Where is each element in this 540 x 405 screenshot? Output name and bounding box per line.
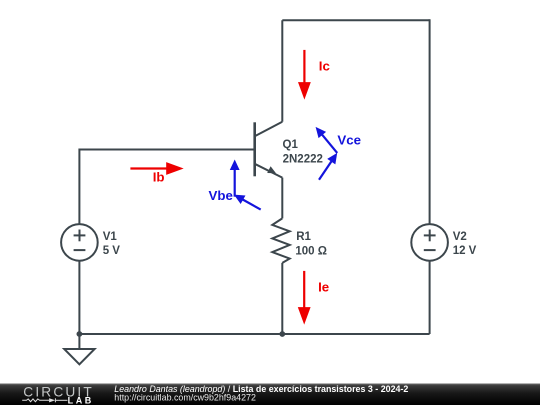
- wire: V1 minus terminal down to ground net: [78, 261, 80, 334]
- svg-text:http://circuitlab.com/cw9b2hf9: http://circuitlab.com/cw9b2hf9a4272: [114, 393, 256, 403]
- voltage source V1: [61, 224, 98, 261]
- svg-text:Vbe: Vbe: [209, 188, 233, 203]
- resistor R1: [272, 218, 289, 263]
- wire: collector vertical up: [281, 20, 283, 122]
- svg-text:2N2222: 2N2222: [283, 153, 323, 165]
- svg-text:Ie: Ie: [318, 279, 329, 294]
- wire: V1 plus terminal up to base net corner: [78, 149, 80, 225]
- svg-text:Vce: Vce: [337, 132, 361, 147]
- voltage arrow Vce: [316, 127, 361, 180]
- svg-text:100 Ω: 100 Ω: [295, 245, 327, 257]
- current arrow Ib: [130, 162, 183, 184]
- wire: emitter down to resistor R1: [281, 178, 283, 219]
- node junction ground net at R1: [279, 331, 285, 337]
- svg-text:5 V: 5 V: [103, 245, 121, 257]
- svg-text:Ib: Ib: [153, 169, 165, 184]
- svg-text:V2: V2: [453, 231, 467, 243]
- svg-text:R1: R1: [296, 231, 311, 243]
- svg-text:V1: V1: [103, 231, 118, 243]
- wire: base net horizontal: [79, 149, 254, 151]
- ground: [64, 334, 94, 364]
- transistor Q1: [255, 122, 283, 178]
- wire: right vertical into V2 plus terminal: [429, 19, 431, 224]
- current arrow Ie: [298, 271, 329, 325]
- svg-text:LAB: LAB: [68, 396, 94, 405]
- svg-text:12 V: 12 V: [453, 245, 477, 257]
- voltage arrow Vbe: [209, 160, 261, 210]
- voltage source V2: [411, 224, 448, 261]
- wire: resistor R1 down to ground net: [281, 263, 283, 334]
- svg-text:Q1: Q1: [283, 139, 299, 151]
- CircuitLab logo squiggle resistor and diode: [22, 398, 67, 402]
- current arrow Ic: [298, 50, 330, 100]
- wire: V2 minus terminal down to ground net: [429, 261, 431, 334]
- wire: bottom ground net: [79, 333, 429, 335]
- node junction ground net at V1: [77, 331, 83, 337]
- wire: top net from collector to V2+: [282, 19, 429, 21]
- svg-text:Ic: Ic: [319, 58, 330, 73]
